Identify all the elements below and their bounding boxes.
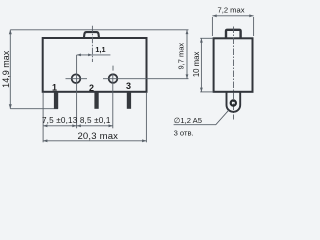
switch body (front view) <box>43 38 147 92</box>
button (side view) <box>226 30 241 39</box>
leader line for hole callout <box>174 110 229 124</box>
hole 2 vertical axis dash above <box>112 66 114 71</box>
svg-text:10 max: 10 max <box>192 52 201 78</box>
dimension line 20,3 max <box>43 140 146 142</box>
dimension line 14,9 max <box>9 30 11 109</box>
mounting hole circle 1 <box>72 74 81 83</box>
extension line top (14,9 / 9,7 shared, button top level) <box>10 29 188 31</box>
svg-text:9,7 max: 9,7 max <box>177 43 186 70</box>
dimension 10 max <box>200 37 213 39</box>
dimension line 7,5 / 8,5 <box>43 125 113 127</box>
svg-text:7,5 ±0,13: 7,5 ±0,13 <box>42 116 78 125</box>
terminal hole ∅1,2 <box>231 100 236 105</box>
svg-text:14,9 max: 14,9 max <box>1 50 11 88</box>
body right edge extension down <box>145 93 147 143</box>
svg-text:3: 3 <box>126 81 131 91</box>
mounting hole circle 2 <box>109 74 118 83</box>
dimension 1,1 <box>77 54 111 56</box>
button (front view) <box>84 32 99 38</box>
extension line bottom of pins (14,9) <box>10 108 58 110</box>
svg-text:1,1: 1,1 <box>95 45 105 54</box>
svg-text:3 отв.: 3 отв. <box>174 129 194 138</box>
hole 2 vertical axis / extension down <box>112 73 114 128</box>
switch body (side view) <box>214 38 253 92</box>
centerline (side view) <box>233 27 235 120</box>
dimension 9,7 max <box>186 30 188 79</box>
terminal pin 2 <box>94 92 98 109</box>
terminal pin 1 <box>54 92 58 109</box>
hole axis horizontal centerline + extension to 9,7 dim <box>66 78 88 80</box>
terminal lug (side view) <box>227 92 241 112</box>
dimension 7,2 max <box>212 15 253 17</box>
svg-text:20,3 max: 20,3 max <box>77 131 118 142</box>
svg-text:2: 2 <box>89 83 94 93</box>
svg-text:8,5 ±0,1: 8,5 ±0,1 <box>80 116 111 125</box>
button centerline (front) <box>91 26 93 62</box>
terminal pin 3 <box>127 92 131 109</box>
body left edge extension down <box>42 93 44 143</box>
svg-text:7,2 max: 7,2 max <box>217 6 244 15</box>
svg-text:∅1,2 A5: ∅1,2 A5 <box>174 116 202 125</box>
svg-text:1: 1 <box>52 83 57 93</box>
hole 1 vertical axis / extension down <box>76 55 78 128</box>
